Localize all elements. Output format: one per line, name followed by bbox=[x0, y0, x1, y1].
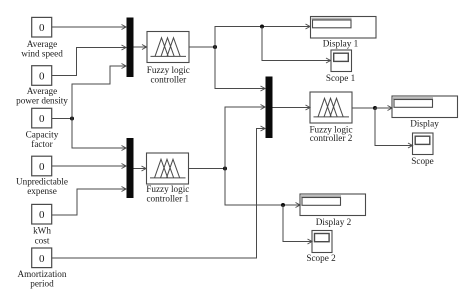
scope Scope 2 bbox=[306, 231, 336, 264]
op fuzzy logic controller 1 U2 bbox=[146, 153, 189, 203]
junction node D bbox=[281, 203, 285, 207]
display Display bbox=[392, 96, 458, 129]
constant block Average wind speed bbox=[21, 17, 63, 58]
wire node C up to Mux3 input 2 bbox=[225, 105, 265, 169]
wire node E to Display bbox=[375, 106, 392, 111]
svg-text:controller: controller bbox=[150, 75, 186, 85]
svg-text:Fuzzy logic: Fuzzy logic bbox=[147, 65, 190, 75]
svg-text:Capacity: Capacity bbox=[26, 129, 59, 139]
wire fuzzy logic controller 1 output to node C bbox=[189, 168, 226, 170]
op fuzzy logic controller 2 U3 bbox=[309, 92, 352, 143]
display Display 2 bbox=[300, 194, 366, 227]
constant block Capacity factor bbox=[26, 108, 59, 149]
svg-text:0: 0 bbox=[39, 209, 45, 221]
svg-text:Scope 2: Scope 2 bbox=[306, 253, 336, 263]
wire fuzzy logic controller 2 output to node E bbox=[352, 107, 375, 109]
constant block Average power density bbox=[16, 66, 68, 106]
svg-text:Scope 1: Scope 1 bbox=[326, 73, 356, 83]
constant block kWh cost bbox=[32, 204, 52, 245]
mux Mux2 bbox=[127, 138, 134, 198]
junction node C bbox=[223, 167, 227, 171]
wire capacity factor down to Mux2 input 1 bbox=[72, 119, 126, 151]
wire capacity factor up to Mux1 input 3 bbox=[72, 64, 126, 119]
wire kWh cost to Mux2 input 3 bbox=[52, 187, 126, 216]
scope Scope 1 bbox=[326, 50, 356, 83]
wire Mux1 output to fuzzy logic controller bbox=[134, 45, 147, 50]
wire node B down to Scope 1 bbox=[262, 27, 331, 64]
svg-text:expense: expense bbox=[27, 186, 57, 196]
svg-text:Fuzzy logic: Fuzzy logic bbox=[146, 184, 189, 194]
constant block Unpredictable expense bbox=[16, 156, 68, 196]
wire node C down to Display 2 bbox=[225, 169, 300, 208]
svg-text:Display 2: Display 2 bbox=[316, 217, 352, 227]
svg-text:Average: Average bbox=[27, 39, 57, 49]
svg-text:power density: power density bbox=[16, 96, 68, 106]
svg-text:cost: cost bbox=[35, 235, 50, 245]
svg-text:Average: Average bbox=[27, 86, 57, 96]
wire amortization period to Mux3 input 3 bbox=[52, 126, 265, 258]
wire power density to Mux1 input 2 bbox=[52, 45, 126, 76]
wire wind speed to Mux1 input 1 bbox=[52, 25, 126, 30]
svg-text:controller 2: controller 2 bbox=[310, 133, 353, 143]
scope Scope bbox=[411, 133, 433, 166]
svg-text:0: 0 bbox=[39, 22, 45, 34]
svg-text:period: period bbox=[30, 279, 54, 289]
wire unpredictable expense to Mux2 input 2 bbox=[52, 164, 126, 169]
svg-text:0: 0 bbox=[39, 71, 45, 83]
svg-text:Unpredictable: Unpredictable bbox=[16, 177, 68, 187]
display Display 1 bbox=[311, 17, 377, 49]
constant block Amortization period bbox=[18, 248, 67, 289]
svg-text:Amortization: Amortization bbox=[18, 269, 67, 279]
junction node A bbox=[213, 45, 217, 49]
wire capacity factor to junction bbox=[52, 118, 72, 120]
wire node D down to Scope 2 bbox=[283, 205, 312, 244]
wire fuzzy logic controller output to node A bbox=[189, 46, 215, 48]
mux Mux3 bbox=[266, 77, 273, 139]
svg-text:kWh: kWh bbox=[33, 225, 51, 235]
wire node A down to Mux3 input 1 bbox=[215, 47, 265, 91]
svg-text:factor: factor bbox=[31, 139, 52, 149]
svg-text:Display: Display bbox=[410, 119, 439, 129]
svg-text:controller 1: controller 1 bbox=[146, 193, 189, 203]
junction node B bbox=[260, 25, 264, 29]
junction capacity factor node bbox=[70, 117, 74, 121]
junction node E bbox=[373, 106, 377, 110]
svg-text:0: 0 bbox=[39, 113, 45, 125]
svg-text:0: 0 bbox=[39, 161, 45, 173]
op fuzzy logic controller U1 bbox=[147, 32, 190, 85]
svg-text:Scope: Scope bbox=[411, 156, 433, 166]
wire Mux2 output to fuzzy logic controller 1 bbox=[134, 166, 147, 171]
svg-text:0: 0 bbox=[39, 253, 45, 265]
wire node E down to Scope bbox=[375, 108, 413, 148]
wire Mux3 output to fuzzy logic controller 2 bbox=[273, 105, 311, 110]
svg-text:wind speed: wind speed bbox=[21, 48, 63, 58]
mux Mux1 bbox=[127, 18, 134, 78]
wire node A up to Display 1 bbox=[215, 24, 310, 47]
svg-text:Display 1: Display 1 bbox=[323, 39, 359, 49]
